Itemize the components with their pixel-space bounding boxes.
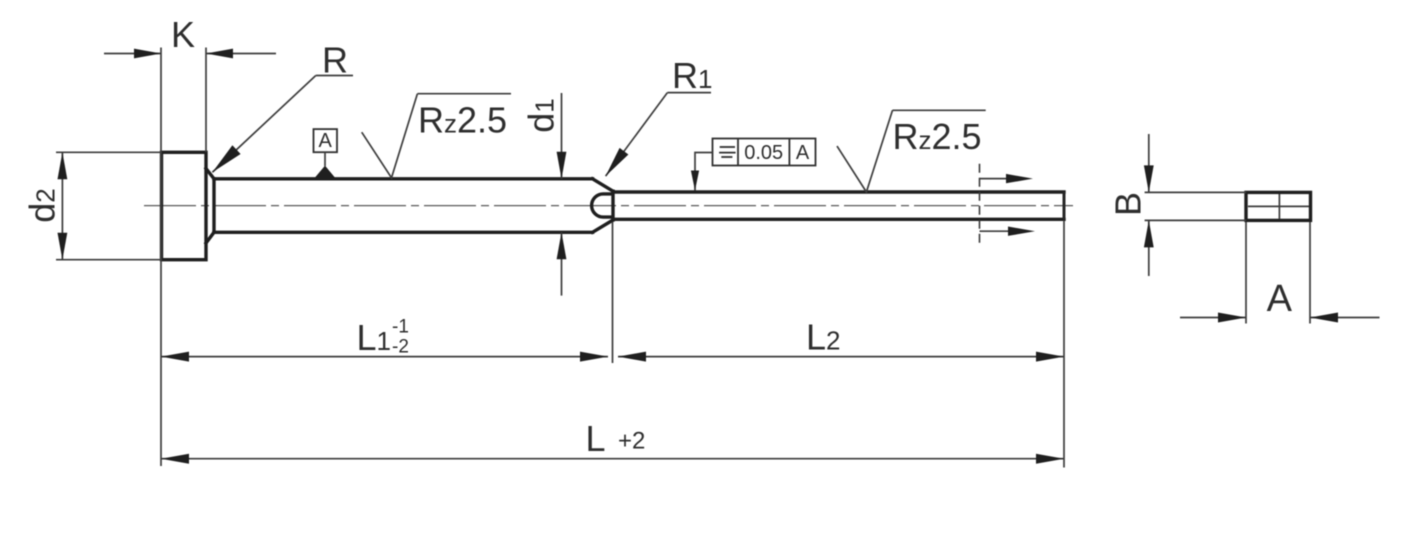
L1/L2 junction extension line [612, 222, 614, 363]
shaft d1 bottom edge [214, 231, 593, 234]
side view center cross [1248, 205, 1309, 207]
svg-text:Rz2.5: Rz2.5 [418, 100, 507, 141]
svg-text:Rz2.5: Rz2.5 [893, 116, 982, 157]
leader R [212, 40, 353, 173]
head-shaft fillet chamfer bottom [206, 232, 214, 243]
shaft d1 top edge [214, 177, 593, 180]
svg-text:L: L [586, 418, 606, 459]
collar line [212, 179, 215, 233]
leader R1 [606, 55, 713, 176]
K extension line right [205, 48, 207, 153]
K dimension [104, 14, 276, 58]
svg-text:A: A [796, 142, 810, 164]
region arrow top [980, 178, 1013, 180]
surface finish symbol 2 [837, 110, 986, 192]
datum A flag [314, 129, 338, 178]
L2 dimension [618, 316, 1064, 361]
thin shaft top edge [613, 190, 1064, 193]
ejector pin head [162, 152, 207, 259]
head-shaft fillet chamfer top [206, 169, 214, 179]
region arrow bottom [980, 230, 1015, 232]
svg-text:A: A [319, 130, 333, 152]
dashed region boundary [979, 164, 981, 248]
svg-text:-2: -2 [392, 337, 409, 358]
centerline main view [144, 205, 1073, 207]
svg-text:-1: -1 [392, 317, 409, 338]
right extension line [1063, 221, 1065, 468]
svg-text:0.05: 0.05 [744, 142, 783, 164]
d2 dimension [22, 152, 162, 259]
shaft end face [1063, 192, 1066, 219]
B dimension [1108, 134, 1247, 276]
surface finish symbol 1 [362, 94, 511, 178]
L dimension [161, 418, 1064, 464]
cone bottom [593, 220, 614, 232]
side view body [1246, 192, 1311, 220]
svg-text:B: B [1108, 192, 1149, 216]
R1 dome [592, 194, 612, 217]
svg-text:R: R [322, 40, 348, 81]
frame leader [695, 153, 713, 191]
step face [611, 191, 614, 220]
svg-text:K: K [171, 14, 195, 55]
d1 dimension [521, 93, 567, 296]
thin shaft bottom edge [613, 218, 1064, 221]
A dimension [1180, 222, 1380, 324]
parallelism feature control frame [691, 139, 816, 191]
svg-text:A: A [1267, 278, 1293, 320]
L1 dimension [161, 317, 608, 362]
K extension line left / L extension [160, 48, 162, 467]
svg-text:+2: +2 [618, 428, 645, 455]
cone top [593, 179, 614, 191]
